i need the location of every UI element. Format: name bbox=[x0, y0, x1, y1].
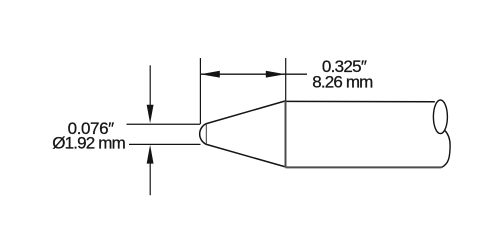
cone-shank junction line (gray) bbox=[285, 101, 287, 167]
extension line at tip apex (x=200) bbox=[199, 58, 201, 124]
lower arrow line of diameter dimension bbox=[149, 164, 151, 196]
tip cone outline with rounded nose bbox=[200, 101, 286, 167]
left arrowhead of horizontal dimension bbox=[200, 71, 220, 78]
top extension line of diameter dimension bbox=[127, 123, 201, 125]
bottom extension line of diameter dimension bbox=[129, 143, 201, 145]
break ellipse at shank end bbox=[433, 100, 447, 134]
svg-text:Ø1.92 mm: Ø1.92 mm bbox=[52, 134, 126, 153]
shank bottom edge (gray) bbox=[286, 166, 442, 168]
upper arrowhead pointing down bbox=[147, 105, 154, 124]
lower arrowhead pointing up bbox=[147, 145, 154, 164]
upper arrow line of diameter dimension bbox=[149, 65, 151, 106]
svg-text:8.26 mm: 8.26 mm bbox=[312, 72, 373, 91]
nose tangent edge line bbox=[205, 124, 207, 145]
horizontal dimension line 0.325in bbox=[200, 73, 307, 75]
extension line at cone base (x=285.6) bbox=[285, 58, 287, 101]
right arrowhead of horizontal dimension bbox=[266, 71, 286, 78]
shank top edge bbox=[286, 100, 435, 102]
break S-curve bbox=[442, 130, 451, 167]
